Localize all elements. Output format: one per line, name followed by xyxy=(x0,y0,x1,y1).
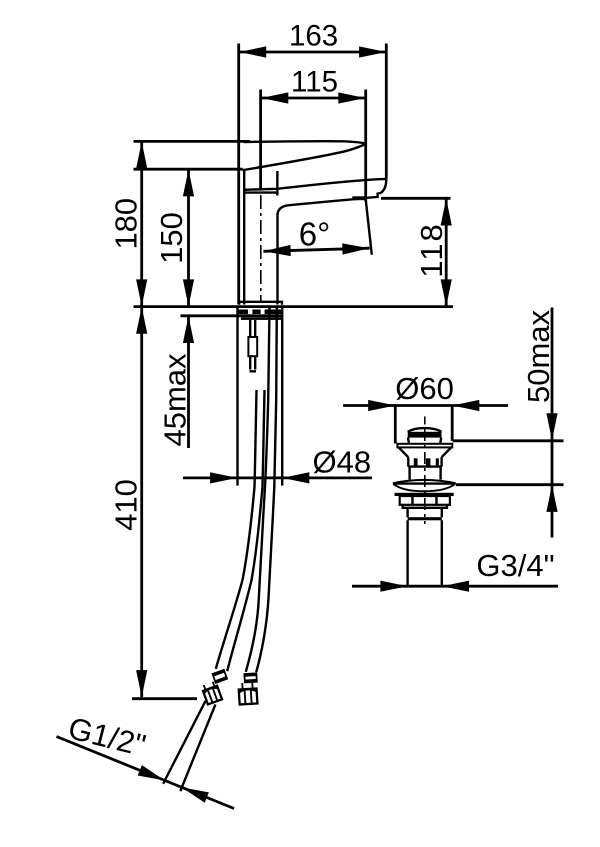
dimension G3/4 right arrowhead xyxy=(442,581,469,592)
drain slot 3 xyxy=(436,458,439,465)
svg-text:6°: 6° xyxy=(299,216,331,253)
dimension Ø60 left arrowhead xyxy=(368,400,395,411)
dimension Ø60 right arrowhead xyxy=(452,400,479,411)
hose B nut xyxy=(238,682,257,704)
dimension 50max top arrowhead xyxy=(546,413,557,440)
washer band gap 1 xyxy=(248,310,252,315)
dimension 50max line xyxy=(551,308,554,538)
drain flange xyxy=(397,444,452,448)
dimension 50max bottom arrowhead xyxy=(546,485,557,512)
faucet spout right corner xyxy=(365,179,386,198)
dimension 163 left extension line (also faucet lever end / column back edge) xyxy=(237,44,240,305)
drain nut facets xyxy=(413,496,437,505)
reference line 118 top xyxy=(381,197,451,200)
faucet shoulder lower edge xyxy=(244,191,277,193)
dimension 6 deg right arrowhead xyxy=(342,243,369,255)
dimension 115 left arrowhead xyxy=(261,92,288,103)
dimension 410 top arrowhead xyxy=(136,307,147,334)
dimension 180 bottom arrowhead xyxy=(136,279,147,306)
reference line 180 top xyxy=(134,140,251,143)
svg-text:180: 180 xyxy=(109,198,144,250)
drain slot 2 xyxy=(426,458,431,465)
drain slot 1 xyxy=(414,458,418,465)
faucet shoulder upper edge and head bottom edge xyxy=(244,179,386,190)
drain washer xyxy=(395,493,454,496)
dimension G3/4 line xyxy=(352,585,558,588)
hose A left edge xyxy=(216,487,255,669)
dimension 115 right arrowhead xyxy=(338,92,365,103)
faucet centerline xyxy=(260,195,262,303)
faucet lever top edge xyxy=(244,141,366,143)
svg-text:45max: 45max xyxy=(158,353,193,447)
hose B right edge xyxy=(256,308,277,672)
svg-text:G3/4": G3/4" xyxy=(476,548,554,583)
faucet base plate xyxy=(239,302,282,305)
svg-text:410: 410 xyxy=(109,479,144,531)
dimension Ø48 right arrowhead xyxy=(282,472,309,483)
hose A upper left edge xyxy=(255,390,257,487)
drain cap skirt xyxy=(408,438,441,444)
faucet aerator xyxy=(352,196,365,200)
faucet lever bottom edge xyxy=(243,144,366,170)
dimension G1/2 leader line xyxy=(57,737,235,809)
dimension 163 right arrowhead xyxy=(359,46,386,57)
mounting stud lower xyxy=(250,356,257,371)
dimension 45max line xyxy=(187,316,190,448)
hose B left edge xyxy=(246,308,270,672)
drain cap band xyxy=(408,432,442,438)
dimension 115 right extension line xyxy=(364,90,367,202)
dimension 163 dim line xyxy=(239,51,386,54)
dimension G1/2 second arrowhead xyxy=(180,782,209,803)
mounting stud nut xyxy=(248,337,257,356)
dimension 150 line xyxy=(187,169,190,306)
svg-text:Ø60: Ø60 xyxy=(395,371,454,406)
dimension 118 top arrowhead xyxy=(441,199,452,226)
reference line 150 top xyxy=(134,168,243,171)
drain slot band walls xyxy=(408,457,441,466)
faucet shank left edge xyxy=(236,307,238,486)
dimension Ø48 line xyxy=(183,476,372,479)
drain lower body xyxy=(410,467,441,480)
drain centerline xyxy=(424,417,426,525)
faucet body inner edge xyxy=(243,171,245,305)
hose A collar xyxy=(212,670,227,683)
faucet outlet 6 deg slant line xyxy=(365,197,371,255)
dimension G1/2 first arrowhead xyxy=(138,765,167,786)
faucet spout underside xyxy=(278,198,366,214)
dimension Ø48 left arrowhead xyxy=(210,472,237,483)
drain neck washer xyxy=(408,517,442,520)
dimension 163 right extension line xyxy=(385,44,388,179)
svg-text:150: 150 xyxy=(154,212,189,264)
dimension 115 dim line xyxy=(261,97,366,100)
dimension Ø60 right extension line xyxy=(451,405,454,441)
drain dish top arc xyxy=(393,480,456,483)
faucet clamp bar xyxy=(241,317,281,320)
dimension 115 left extension line xyxy=(259,90,262,190)
dimension Ø60 line xyxy=(343,404,508,407)
hose B collar xyxy=(244,673,257,682)
svg-text:50max: 50max xyxy=(521,309,556,403)
svg-text:163: 163 xyxy=(289,19,338,52)
faucet column front edge xyxy=(276,214,278,305)
dimension 410 line xyxy=(140,307,143,698)
drain neck xyxy=(408,508,442,517)
dimension 180 line xyxy=(140,141,143,306)
hose A nut xyxy=(201,681,222,705)
hose A lower tube left edge xyxy=(163,701,205,784)
svg-text:115: 115 xyxy=(291,66,338,99)
hose A upper right edge xyxy=(263,390,265,487)
dimension 163 left arrowhead xyxy=(239,46,266,57)
dimension 150 bottom arrowhead xyxy=(183,279,194,306)
svg-text:Ø48: Ø48 xyxy=(312,444,371,479)
dimension 410 bottom arrowhead xyxy=(136,670,147,697)
dimension 118 bottom arrowhead xyxy=(441,279,452,306)
drain pipe right edge xyxy=(441,520,443,586)
hose A right edge xyxy=(227,487,262,671)
dimension 150 top arrowhead xyxy=(183,169,194,196)
washer band gap 2 xyxy=(261,310,265,315)
drain dish center line xyxy=(393,482,456,484)
faucet shank right edge xyxy=(281,307,283,486)
reference line 50max top xyxy=(453,439,564,442)
dimension 118 line xyxy=(445,198,448,306)
dimension 6 deg line xyxy=(263,248,369,251)
drain cap dome xyxy=(408,428,442,432)
drain cone left xyxy=(399,447,409,457)
deck reference line xyxy=(134,305,454,308)
drain nut step xyxy=(403,505,447,508)
svg-text:118: 118 xyxy=(414,222,449,277)
drain nut xyxy=(400,496,450,505)
dimension G3/4 left arrowhead xyxy=(380,581,407,592)
reference line 410 bottom xyxy=(132,697,197,700)
reference line 50max bottom xyxy=(456,483,564,486)
drain dish bottom arc xyxy=(394,484,456,491)
mounting stud upper xyxy=(250,320,255,337)
drain cone right xyxy=(442,447,452,457)
hose A lower tube right edge xyxy=(180,705,215,792)
dimension 6 deg left arrowhead xyxy=(263,245,290,257)
dimension 45max arrowhead xyxy=(183,316,194,343)
under-deck reference line (45max top) xyxy=(181,314,284,317)
dimension 180 top arrowhead xyxy=(136,142,147,169)
faucet cartridge front edge xyxy=(276,171,278,196)
dimension Ø60 left extension line xyxy=(394,405,397,443)
faucet under-deck washer band xyxy=(238,310,283,315)
drain pipe left edge xyxy=(406,520,408,586)
